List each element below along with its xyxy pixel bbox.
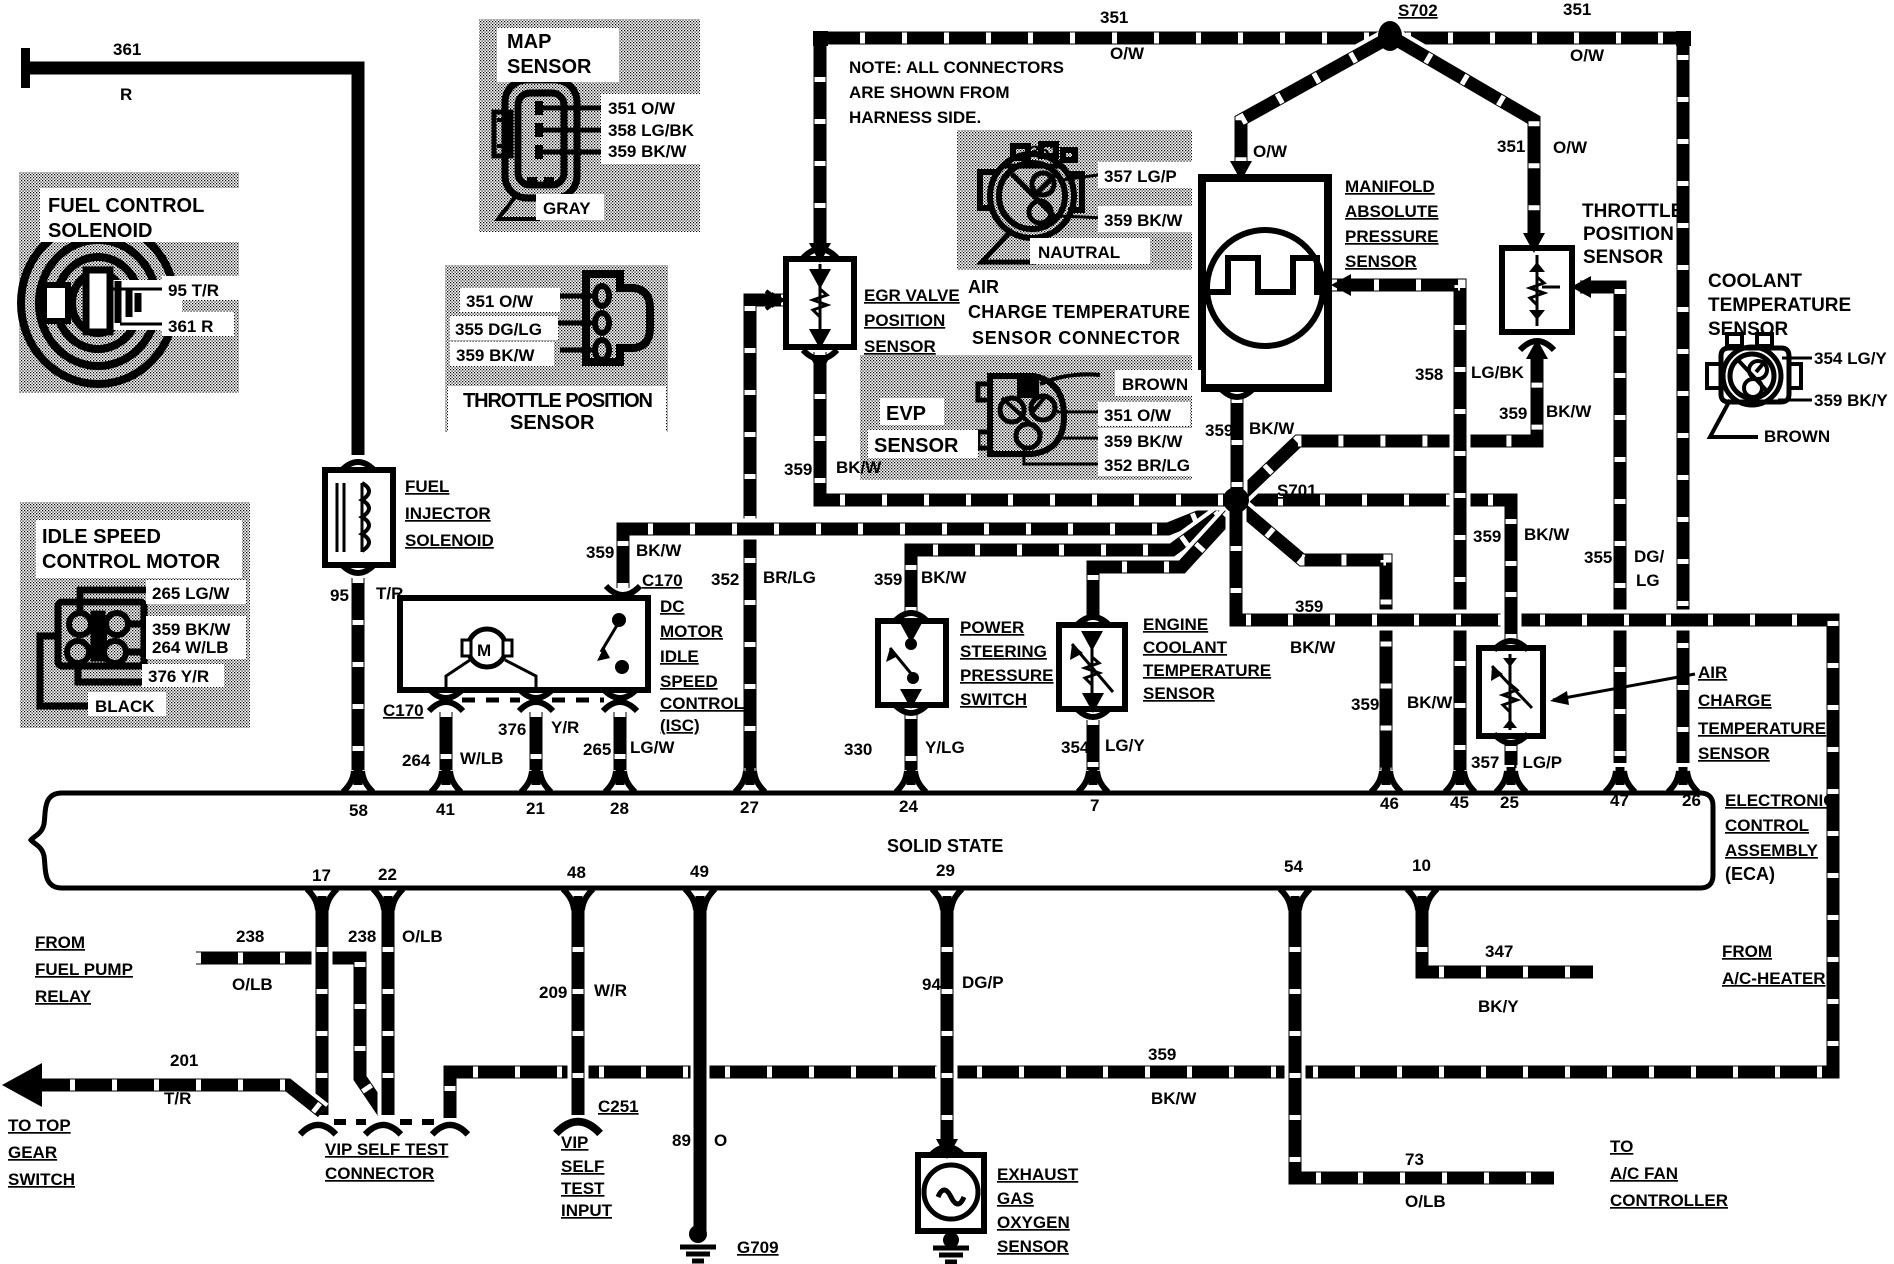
svg-text:Y/R: Y/R (551, 718, 579, 737)
wire 376 Y/R to pin 21 (526, 712, 547, 770)
svg-text:ABSOLUTE: ABSOLUTE (1345, 202, 1439, 221)
svg-text:LG/W: LG/W (630, 738, 675, 757)
svg-text:O/LB: O/LB (1405, 1192, 1446, 1211)
wire 347 BK/Y pin 10 (1422, 905, 1593, 972)
svg-text:W/LB: W/LB (460, 749, 503, 768)
svg-text:SOLENOID: SOLENOID (405, 531, 494, 550)
svg-text:SENSOR: SENSOR (1698, 744, 1770, 763)
svg-text:376: 376 (498, 720, 526, 739)
wire 351 O/W diag S702 to MAP sensor (1241, 36, 1392, 165)
svg-text:SENSOR CONNECTOR: SENSOR CONNECTOR (972, 328, 1180, 348)
wire 351 O/W top bus + right branch to pin 26 (820, 38, 1683, 763)
svg-text:347: 347 (1485, 942, 1513, 961)
svg-text:264: 264 (402, 751, 431, 770)
svg-text:359: 359 (1295, 597, 1323, 616)
svg-text:FUEL: FUEL (405, 477, 449, 496)
svg-text:CONTROLLER: CONTROLLER (1610, 1191, 1728, 1210)
POWER STEERING PRESSURE SWITCH box (878, 621, 946, 705)
svg-text:O/W: O/W (1253, 142, 1288, 161)
svg-text:DG/: DG/ (1634, 547, 1665, 566)
map sensor connector pictorial (494, 80, 577, 198)
svg-text:Y/LG: Y/LG (925, 738, 965, 757)
svg-text:SOLID STATE: SOLID STATE (887, 836, 1003, 856)
svg-text:359 BK/W: 359 BK/W (456, 346, 535, 365)
svg-text:CONTROL: CONTROL (1725, 816, 1809, 835)
svg-text:BK/W: BK/W (636, 541, 682, 560)
svg-text:359: 359 (1205, 421, 1233, 440)
svg-text:COOLANT: COOLANT (1708, 271, 1802, 292)
svg-text:GRAY: GRAY (543, 199, 591, 218)
throttle position sensor connector pictorial (left) (586, 274, 650, 362)
svg-text:ENGINE: ENGINE (1143, 615, 1208, 634)
wire 352 BR/LG EVP to pin 27 (750, 300, 786, 775)
svg-text:22: 22 (378, 865, 397, 884)
svg-text:10: 10 (1412, 856, 1431, 875)
svg-text:58: 58 (349, 801, 368, 820)
svg-text:LG: LG (1636, 571, 1660, 590)
wire 351 O/W diag S702 to TPS (1390, 36, 1534, 240)
svg-text:FUEL CONTROL: FUEL CONTROL (48, 195, 204, 217)
svg-text:BK/W: BK/W (1407, 693, 1453, 712)
MANIFOLD ABSOLUTE PRESSURE SENSOR box (1202, 178, 1328, 388)
svg-text:LG/BK: LG/BK (1471, 363, 1525, 382)
svg-text:HARNESS SIDE.: HARNESS SIDE. (849, 108, 981, 127)
svg-text:TEMPERATURE: TEMPERATURE (1698, 719, 1826, 738)
svg-text:7: 7 (1090, 796, 1099, 815)
svg-text:BK/W: BK/W (1151, 1089, 1197, 1108)
svg-text:351 O/W: 351 O/W (466, 292, 534, 311)
svg-text:SENSOR: SENSOR (874, 435, 959, 457)
svg-text:SENSOR: SENSOR (1583, 247, 1664, 268)
wire 359 BK/W S701 diag to pin 46 (1236, 504, 1386, 770)
svg-text:46: 46 (1380, 794, 1399, 813)
svg-text:SENSOR: SENSOR (510, 412, 595, 434)
svg-text:BK/Y: BK/Y (1478, 997, 1519, 1016)
svg-text:41: 41 (436, 800, 455, 819)
svg-text:MAP: MAP (507, 31, 551, 53)
wire 94 DG/P pin 29 to EGO sensor (937, 905, 958, 1152)
svg-text:17: 17 (312, 866, 331, 885)
AIR CHARGE TEMPERATURE SENSOR box (1479, 648, 1543, 736)
TEXT (42, 31, 959, 573)
svg-text:AIR: AIR (1698, 663, 1727, 682)
wire 359 BK/W main ground bus S701-down right-side bottom (450, 504, 1833, 1118)
svg-text:MANIFOLD: MANIFOLD (1345, 177, 1435, 196)
svg-text:359 BK/W: 359 BK/W (152, 620, 231, 639)
wire 73 O/LB pin 54 (1295, 905, 1554, 1178)
svg-text:POWER: POWER (960, 618, 1024, 637)
svg-text:O/LB: O/LB (232, 975, 273, 994)
svg-text:SELF: SELF (561, 1157, 604, 1176)
svg-text:21: 21 (526, 799, 545, 818)
wire 330 Y/LG to pin 24 (901, 714, 922, 770)
svg-text:352: 352 (711, 570, 739, 589)
svg-text:VIP: VIP (561, 1133, 588, 1152)
svg-text:FROM: FROM (1722, 942, 1772, 961)
svg-text:O/LB: O/LB (402, 927, 443, 946)
svg-text:238: 238 (236, 927, 264, 946)
EGR VALVE POSITION SENSOR box (786, 259, 854, 347)
svg-text:48: 48 (567, 863, 586, 882)
svg-text:ASSEMBLY: ASSEMBLY (1725, 841, 1819, 860)
svg-text:238: 238 (348, 927, 376, 946)
svg-text:CHARGE TEMPERATURE: CHARGE TEMPERATURE (968, 302, 1190, 322)
wire 359 BK/W C170 to S701 (623, 503, 1233, 588)
wire 209 W/R pin 48 to C251 (568, 905, 589, 1115)
wire 359 BK/W S701 to TPS (via y441) (1236, 352, 1537, 500)
svg-text:IDLE: IDLE (660, 647, 699, 666)
svg-text:S702: S702 (1398, 1, 1438, 20)
svg-text:l LG/P: l LG/P (1513, 753, 1562, 772)
fuel control solenoid pictorial (21, 222, 175, 384)
svg-text:BROWN: BROWN (1122, 375, 1188, 394)
svg-text:TEST: TEST (561, 1179, 605, 1198)
evp sensor connector pictorial (978, 376, 1064, 454)
C251 connector (556, 1122, 600, 1134)
svg-text:BR/LG: BR/LG (763, 568, 816, 587)
svg-text:C170: C170 (642, 571, 683, 590)
svg-text:359: 359 (874, 570, 902, 589)
wire 359 BK/W EGR bottom to S701 (820, 352, 1230, 500)
svg-text:PRESSURE: PRESSURE (1345, 227, 1439, 246)
wire 89 O pin 49 to G709 solid (691, 905, 710, 1237)
EXHAUST GAS OXYGEN SENSOR (918, 1155, 984, 1231)
svg-text:SWITCH: SWITCH (8, 1170, 75, 1189)
svg-text:351 O/W: 351 O/W (1104, 406, 1172, 425)
svg-text:SENSOR: SENSOR (997, 1237, 1069, 1256)
throttle position sensor panel (left) (445, 265, 668, 432)
svg-text:CHARGE: CHARGE (1698, 691, 1772, 710)
svg-text:NAUTRAL: NAUTRAL (1038, 243, 1120, 262)
svg-text:361: 361 (113, 40, 141, 59)
svg-text:359 BK/W: 359 BK/W (1104, 432, 1183, 451)
svg-text:BROWN: BROWN (1764, 427, 1830, 446)
svg-text:TEMPERATURE: TEMPERATURE (1143, 661, 1271, 680)
idle speed control motor panel (20, 502, 250, 728)
svg-text:49: 49 (690, 862, 709, 881)
svg-text:358: 358 (1415, 365, 1443, 384)
wire 201 T/R to top gear switch (28, 1085, 322, 1112)
svg-text:351: 351 (1563, 0, 1591, 19)
svg-text:BK/W: BK/W (1524, 525, 1570, 544)
svg-text:359: 359 (1499, 404, 1527, 423)
svg-text:LG/Y: LG/Y (1105, 736, 1145, 755)
svg-text:POSITION: POSITION (864, 311, 945, 330)
svg-text:O/W: O/W (1553, 138, 1588, 157)
svg-text:ARE SHOWN FROM: ARE SHOWN FROM (849, 83, 1010, 102)
coolant temperature sensor connector pictorial (1707, 334, 1801, 405)
air charge temp sensor connector pictorial (NEUTRAL) (980, 144, 1082, 238)
white label patches on gray panels (40, 188, 245, 242)
svg-text:359: 359 (1473, 527, 1501, 546)
svg-text:CONNECTOR: CONNECTOR (325, 1164, 434, 1183)
wire 359 BK/W engine coolant temp to S701 (1093, 508, 1236, 622)
svg-text:MOTOR: MOTOR (660, 622, 723, 641)
svg-text:PRESSURE: PRESSURE (960, 666, 1054, 685)
svg-text:SWITCH: SWITCH (960, 690, 1027, 709)
svg-text:THROTTLE POSITION: THROTTLE POSITION (463, 390, 653, 412)
FUEL INJECTOR SOLENOID box (325, 470, 393, 565)
svg-text:376 Y/R: 376 Y/R (148, 667, 209, 686)
svg-text:354: 354 (1061, 738, 1090, 757)
S702 node (1378, 21, 1402, 51)
svg-text:VIP SELF TEST: VIP SELF TEST (325, 1140, 449, 1159)
svg-text:(ECA): (ECA) (1725, 864, 1775, 884)
svg-text:94: 94 (922, 975, 941, 994)
svg-text:359: 359 (586, 543, 614, 562)
svg-text:BK/W: BK/W (1249, 419, 1295, 438)
svg-text:355 DG/LG: 355 DG/LG (455, 320, 542, 339)
svg-text:O: O (714, 1131, 727, 1150)
svg-text:INPUT: INPUT (561, 1201, 613, 1220)
svg-text:(ISC): (ISC) (660, 716, 700, 735)
svg-text:351 O/W: 351 O/W (608, 99, 676, 118)
svg-text:95 T/R: 95 T/R (168, 281, 219, 300)
svg-text:SENSOR: SENSOR (1143, 684, 1215, 703)
wire 359 BK/W S701 right to air charge temp sensor (1236, 500, 1511, 640)
svg-text:27: 27 (740, 798, 759, 817)
svg-text:IDLE SPEED: IDLE SPEED (42, 526, 161, 548)
svg-text:359: 359 (784, 460, 812, 479)
svg-text:EVP: EVP (886, 403, 926, 425)
air charge temperature sensor connector panel (957, 130, 1192, 270)
arrow 201 left (2, 1063, 42, 1107)
svg-text:G709: G709 (737, 1238, 779, 1257)
svg-text:359 BK/Y: 359 BK/Y (1814, 391, 1888, 410)
svg-text:45: 45 (1450, 793, 1469, 812)
C170 connector row (429, 702, 463, 711)
svg-text:BK/W: BK/W (1546, 402, 1592, 421)
svg-text:S701: S701 (1277, 481, 1317, 500)
svg-text:R: R (120, 85, 132, 104)
svg-text:24: 24 (899, 797, 918, 816)
evp sensor panel (860, 355, 1192, 480)
ENGINE COOLANT TEMPERATURE SENSOR box (1059, 625, 1125, 709)
S701 node (1223, 487, 1249, 513)
wire pin 22 to VIP connector (378, 905, 399, 1115)
svg-text:89: 89 (672, 1131, 691, 1150)
wire 264 W/LB to pin 41 (436, 712, 457, 770)
svg-text:CONTROL: CONTROL (660, 694, 744, 713)
svg-text:354 LG/Y: 354 LG/Y (1814, 349, 1887, 368)
fuel control solenoid panel (19, 172, 239, 393)
svg-text:RELAY: RELAY (35, 987, 92, 1006)
wire 358 LG/BK MAP right to pin 45 (1332, 285, 1460, 770)
wire pin 17 to VIP connector (312, 905, 333, 1115)
ECA pin forks bottom (307, 889, 337, 914)
wire 359 BK/W MAP bottom to S701 (1227, 398, 1248, 494)
svg-text:CONTROL MOTOR: CONTROL MOTOR (42, 551, 221, 573)
svg-text:359: 359 (1351, 695, 1379, 714)
svg-text:355: 355 (1584, 548, 1612, 567)
svg-text:28: 28 (610, 799, 629, 818)
svg-text:O/W: O/W (1110, 44, 1145, 63)
svg-text:359: 359 (1148, 1045, 1176, 1064)
wire 238 O/LB from fuel pump relay (196, 958, 383, 1112)
svg-text:357 LG/P: 357 LG/P (1104, 167, 1177, 186)
svg-text:W/R: W/R (594, 981, 627, 1000)
svg-text:TO TOP: TO TOP (8, 1116, 71, 1135)
wire 95 T/R fuel injector to pin 58 (348, 578, 369, 770)
wire 361 left end cap (21, 48, 30, 88)
svg-text:T/R: T/R (376, 584, 403, 603)
svg-text:FROM: FROM (35, 933, 85, 952)
ELECTRONIC CONTROL ASSEMBLY (ECA) box (31, 793, 1713, 888)
idle speed control motor pictorial (40, 590, 152, 706)
wire 359 BK/W power steering to S701 (911, 505, 1234, 612)
svg-text:TO: TO (1610, 1137, 1633, 1156)
svg-text:201: 201 (170, 1051, 198, 1070)
svg-text:357: 357 (1471, 753, 1499, 772)
svg-text:POSITION: POSITION (1583, 224, 1674, 245)
svg-text:AIR: AIR (968, 277, 999, 297)
svg-text:265 LG/W: 265 LG/W (152, 584, 230, 603)
svg-text:95: 95 (330, 586, 349, 605)
svg-text:358 LG/BK: 358 LG/BK (608, 121, 695, 140)
svg-text:A/C-HEATER: A/C-HEATER (1722, 969, 1826, 988)
map sensor panel (479, 19, 700, 232)
svg-text:TEMPERATURE: TEMPERATURE (1708, 295, 1851, 316)
svg-text:DC: DC (660, 597, 685, 616)
svg-text:BK/W: BK/W (921, 568, 967, 587)
svg-text:M: M (477, 641, 491, 660)
svg-text:O/W: O/W (1570, 46, 1605, 65)
svg-text:SPEED: SPEED (660, 672, 718, 691)
svg-text:351: 351 (1030, 142, 1058, 161)
svg-text:STEERING: STEERING (960, 642, 1047, 661)
svg-text:361 R: 361 R (168, 317, 213, 336)
svg-text:29: 29 (936, 861, 955, 880)
svg-text:C170: C170 (383, 701, 424, 720)
svg-text:SENSOR: SENSOR (507, 56, 592, 78)
svg-text:GAS: GAS (997, 1189, 1034, 1208)
THROTTLE POSITION SENSOR box (right) (1502, 248, 1572, 332)
svg-text:THROTTLE: THROTTLE (1582, 201, 1683, 222)
svg-text:BK/W: BK/W (1290, 638, 1336, 657)
svg-text:GEAR: GEAR (8, 1143, 57, 1162)
ECA pin forks top (343, 767, 373, 792)
wire 354 LG/Y to pin 7 (1083, 720, 1104, 770)
svg-text:BLACK: BLACK (95, 697, 155, 716)
svg-text:SENSOR: SENSOR (1345, 252, 1417, 271)
svg-text:359 BK/W: 359 BK/W (608, 142, 687, 161)
svg-text:BK/W: BK/W (836, 458, 882, 477)
svg-text:351: 351 (1497, 137, 1525, 156)
svg-text:OXYGEN: OXYGEN (997, 1213, 1070, 1232)
svg-text:352 BR/LG: 352 BR/LG (1104, 456, 1190, 475)
svg-text:T/R: T/R (164, 1089, 191, 1108)
DC MOTOR ISC box (400, 598, 648, 690)
svg-text:INJECTOR: INJECTOR (405, 504, 491, 523)
VIP self test connector arcs (300, 1125, 336, 1134)
svg-text:DG/P: DG/P (962, 973, 1004, 992)
svg-text:A/C FAN: A/C FAN (1610, 1164, 1678, 1183)
wire 361 R solid (fuel injector feed) (25, 68, 358, 455)
svg-text:351: 351 (1100, 8, 1128, 27)
svg-text:209: 209 (539, 983, 567, 1002)
G709 ground (689, 1225, 707, 1243)
svg-text:NOTE: ALL CONNECTORS: NOTE: ALL CONNECTORS (849, 58, 1064, 77)
svg-text:EXHAUST: EXHAUST (997, 1165, 1079, 1184)
svg-text:73: 73 (1405, 1150, 1424, 1169)
svg-text:FUEL PUMP: FUEL PUMP (35, 960, 133, 979)
wire 355 DG/LG TPS right to pin 47 (1580, 287, 1620, 763)
air charge temp sensor pointer arrow (1553, 674, 1695, 700)
svg-text:54: 54 (1284, 857, 1303, 876)
wire 265 LG/W to pin 28 (610, 712, 631, 770)
svg-text:264 W/LB: 264 W/LB (152, 638, 229, 657)
svg-text:26: 26 (1682, 791, 1701, 810)
wire air charge temp top vertical over bus (1501, 590, 1522, 640)
svg-text:SOLENOID: SOLENOID (48, 220, 152, 242)
svg-text:SENSOR: SENSOR (1708, 319, 1789, 340)
svg-text:SENSOR: SENSOR (864, 337, 936, 356)
svg-text:47: 47 (1610, 791, 1629, 810)
svg-text:25: 25 (1500, 793, 1519, 812)
svg-text:ELECTRONIC: ELECTRONIC (1725, 791, 1836, 810)
svg-text:EGR VALVE: EGR VALVE (864, 286, 960, 305)
svg-text:C251: C251 (598, 1097, 639, 1116)
wire 357 LG/P to pin 25 (1501, 744, 1522, 765)
svg-text:COOLANT: COOLANT (1143, 638, 1228, 657)
svg-text:265: 265 (583, 740, 611, 759)
svg-text:359 BK/W: 359 BK/W (1104, 211, 1183, 230)
svg-text:330: 330 (844, 740, 872, 759)
